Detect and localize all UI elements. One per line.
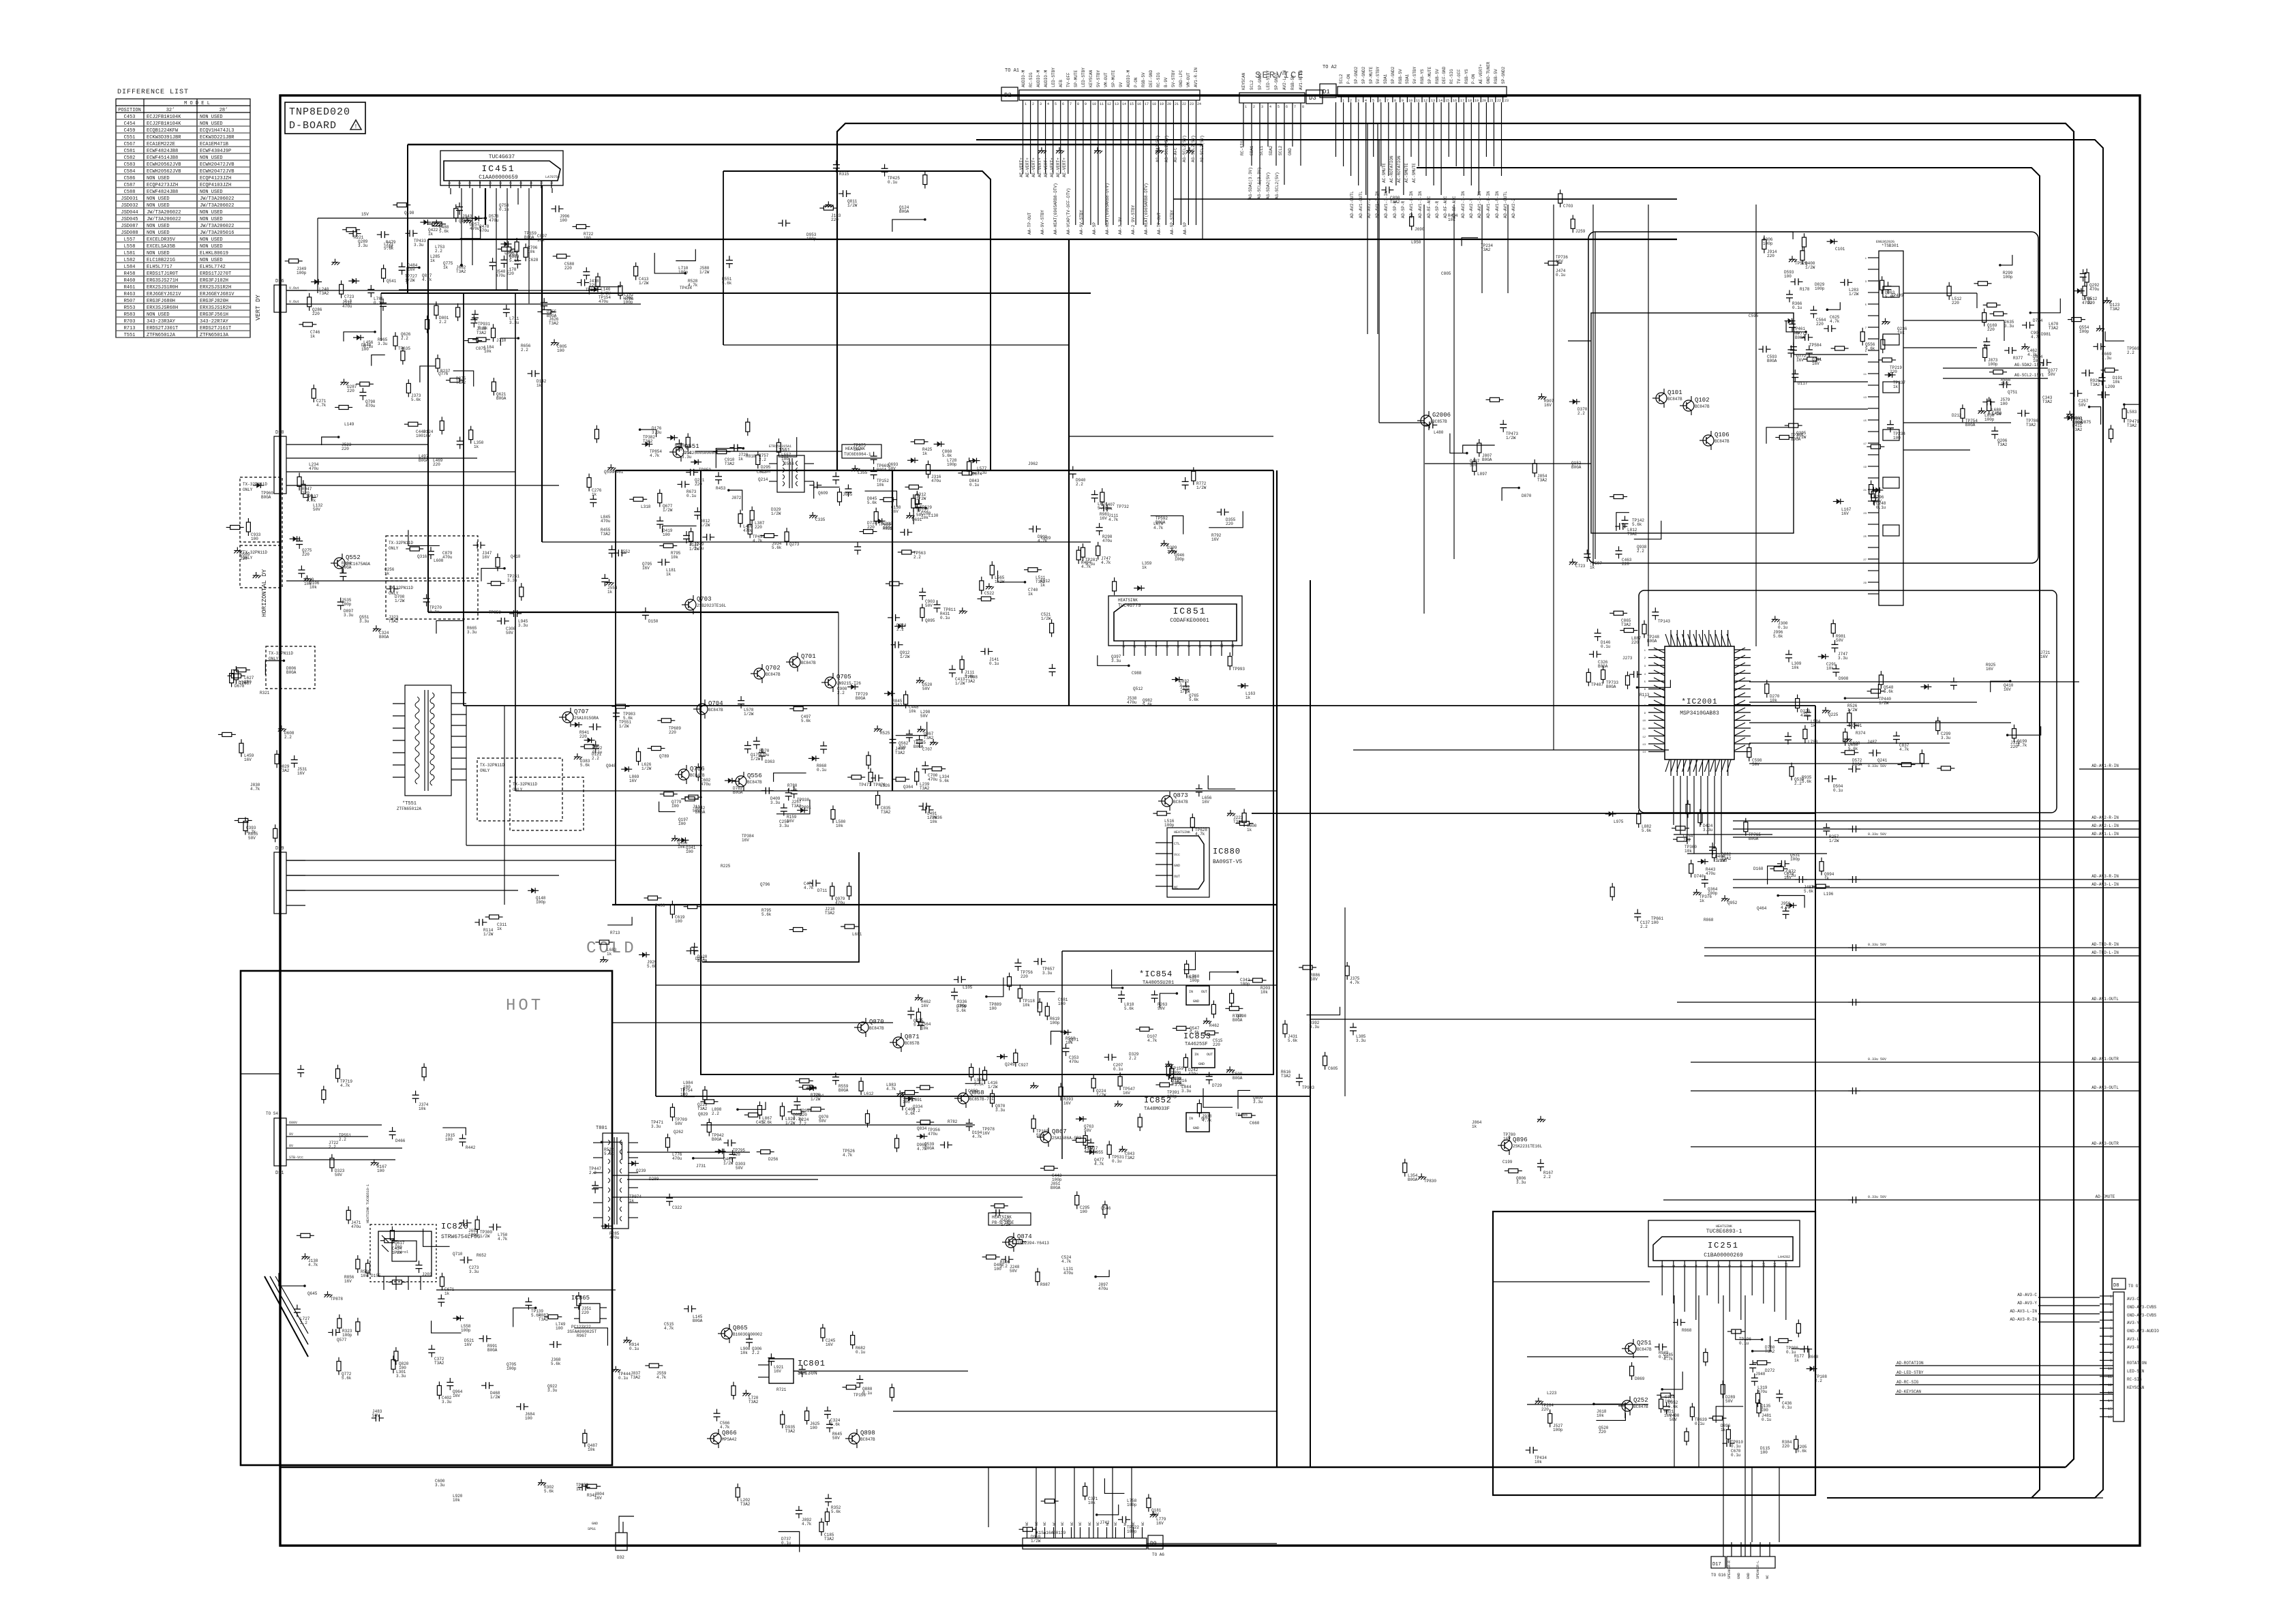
svg-text:11: 11 [550, 180, 554, 184]
svg-text:4.7k: 4.7k [664, 1326, 674, 1331]
svg-text:C805: C805 [1441, 271, 1451, 276]
svg-text:6: 6 [1177, 646, 1181, 648]
svg-text:470u: 470u [672, 1156, 682, 1161]
svg-text:BA09ST-V5: BA09ST-V5 [1213, 859, 1242, 865]
svg-text:1k: 1k [1893, 385, 1899, 389]
svg-text:470u: 470u [309, 466, 319, 471]
svg-text:220: 220 [312, 312, 320, 316]
svg-text:IN: IN [1194, 1053, 1198, 1057]
svg-text:AD-TRD-L-IN: AD-TRD-L-IN [2091, 950, 2119, 955]
svg-text:T3A2: T3A2 [539, 1317, 549, 1322]
svg-text:P-ON: P-ON [1471, 74, 1476, 84]
svg-text:4: 4 [1269, 105, 1271, 109]
svg-text:R713: R713 [124, 326, 136, 331]
svg-text:5.6k: 5.6k [1668, 1404, 1678, 1409]
svg-text:AG-SCL2(5V): AG-SCL2(5V) [1275, 172, 1280, 199]
svg-text:D466: D466 [395, 1139, 406, 1143]
svg-text:AD-AV2-Y: AD-AV2-Y [1469, 198, 1474, 218]
wires into D8 from left [1895, 1293, 2113, 1394]
svg-text:Q418: Q418 [511, 554, 521, 559]
cluster HOT upper interior [297, 1064, 476, 1178]
svg-text:2: 2 [1253, 105, 1255, 109]
cluster around IC865 [513, 1292, 703, 1381]
svg-text:10: 10 [1762, 1263, 1766, 1267]
svg-text:AV3-R: AV3-R [2127, 1345, 2139, 1350]
svg-text:10k: 10k [528, 250, 535, 254]
svg-text:Q364: Q364 [903, 785, 913, 790]
svg-text:ETR15F315A1: ETR15F315A1 [769, 445, 791, 449]
svg-text:AA-3.3V: AA-3.3V [1118, 217, 1123, 235]
svg-text:50V: 50V [675, 1122, 682, 1126]
svg-text:14: 14 [1438, 99, 1442, 103]
svg-text:AC-ROTATION: AC-ROTATION [1389, 155, 1394, 183]
svg-text:GND-AV3-AUDIO: GND-AV3-AUDIO [2127, 1329, 2159, 1334]
cluster IC852/853/854 support [1072, 952, 1263, 1167]
IC851 hybrid [1108, 596, 1242, 656]
vertical bus x680 [463, 293, 464, 706]
connector D2 pin wires down [1019, 106, 1196, 225]
svg-text:50V: 50V [1670, 1417, 1677, 1422]
svg-text:DEF-GND: DEF-GND [1149, 70, 1153, 87]
svg-text:D981: D981 [2041, 332, 2051, 337]
cluster IC801/Q866 area [714, 1324, 894, 1441]
svg-text:AA-HEAT(6965ARB8-DTV): AA-HEAT(6965ARB8-DTV) [1105, 183, 1110, 235]
svg-text:2.2: 2.2 [435, 249, 442, 254]
svg-text:AD-AV1-L-IN: AD-AV1-L-IN [2091, 832, 2119, 837]
cluster left of IC451 (D450/C453) [285, 228, 411, 352]
svg-text:1: 1 [448, 182, 452, 184]
svg-text:4.7k: 4.7k [1061, 1259, 1072, 1264]
svg-text:1k: 1k [629, 1199, 635, 1203]
transistor Q101 [1652, 389, 1682, 408]
svg-text:21: 21 [1863, 490, 1867, 492]
svg-text:TP878: TP878 [331, 1297, 343, 1302]
transistor Q252 [1618, 1396, 1648, 1415]
svg-text:16V: 16V [423, 434, 431, 438]
svg-text:4.7k: 4.7k [1108, 517, 1119, 522]
svg-text:3.3u: 3.3u [518, 623, 528, 628]
svg-text:TP635: TP635 [398, 346, 410, 351]
connector D19 [274, 846, 305, 914]
option dashed box 5 (TX-32PN11D ONLY) [266, 646, 315, 689]
svg-text:L209: L209 [2105, 385, 2115, 389]
svg-text:12: 12 [1785, 1263, 1789, 1267]
svg-text:LED-SEN: LED-SEN [2127, 1369, 2145, 1374]
svg-text:TP853: TP853 [489, 610, 501, 615]
svg-text:8: 8 [1077, 102, 1079, 106]
svg-text:AA-SP: AA-SP [1092, 222, 1097, 235]
svg-text:3: 3 [1261, 105, 1263, 109]
svg-text:4.7k: 4.7k [886, 1087, 896, 1092]
svg-text:AD-AV1-L-IN: AD-AV1-L-IN [1486, 191, 1491, 218]
svg-text:100p: 100p [2079, 329, 2089, 334]
svg-text:AE-VERT+: AE-VERT+ [1062, 157, 1067, 177]
svg-text:5V-STBY: 5V-STBY [1413, 66, 1417, 84]
svg-text:16V: 16V [982, 1131, 990, 1136]
svg-text:GND: GND [1193, 999, 1199, 1004]
box above IC801 [702, 852, 859, 962]
svg-text:10k: 10k [361, 1274, 368, 1278]
svg-text:16V: 16V [742, 838, 749, 843]
svg-text:AD-AV1-OUTL: AD-AV1-OUTL [1503, 191, 1508, 218]
svg-text:1k: 1k [1028, 592, 1033, 597]
svg-text:RC-SIG: RC-SIG [2127, 1377, 2142, 1382]
svg-text:L583: L583 [2127, 410, 2137, 415]
svg-text:1: 1 [1025, 102, 1027, 106]
svg-text:BC847B: BC847B [801, 661, 816, 665]
svg-text:2.2: 2.2 [1640, 924, 1648, 929]
svg-text:4.7k: 4.7k [1081, 565, 1091, 569]
svg-text:1k: 1k [537, 383, 542, 388]
svg-text:NC: NC [1141, 1522, 1145, 1526]
svg-text:0.1u: 0.1u [1731, 1444, 1741, 1449]
svg-text:BC847B: BC847B [860, 1437, 875, 1442]
sound section box around IC2001 [1639, 590, 2057, 813]
svg-text:0.1u: 0.1u [618, 1376, 629, 1381]
svg-text:19: 19 [1475, 99, 1479, 103]
svg-text:ERG3FJ680H: ERG3FJ680H [147, 299, 175, 304]
IC852 regulator [1144, 1096, 1209, 1132]
svg-text:8: 8 [1198, 646, 1203, 648]
svg-text:BC847B: BC847B [1715, 439, 1729, 444]
svg-text:T3A2: T3A2 [456, 380, 466, 385]
svg-text:5.6k: 5.6k [1124, 1006, 1134, 1011]
svg-text:HEATSINK: HEATSINK [1174, 830, 1190, 834]
svg-text:0.1u: 0.1u [969, 483, 980, 487]
svg-text:16V: 16V [891, 509, 898, 514]
transistor Q106 [1700, 431, 1729, 450]
svg-text:1/2W: 1/2W [1506, 436, 1516, 440]
svg-text:NC: NC [1035, 1522, 1039, 1526]
svg-text:2.2: 2.2 [1577, 411, 1585, 416]
svg-text:BC847B: BC847B [708, 708, 723, 712]
cluster C2025/C2034 filters [1841, 650, 2051, 770]
svg-text:T3A2: T3A2 [824, 1537, 834, 1542]
svg-text:3: 3 [468, 182, 472, 184]
svg-text:1k: 1k [1590, 565, 1595, 570]
svg-text:1/2W: 1/2W [483, 932, 494, 937]
svg-text:POSITION: POSITION [118, 108, 141, 113]
svg-text:1: 1 [1661, 1265, 1665, 1267]
IF block box B [1591, 313, 1794, 533]
difference list table [116, 89, 250, 338]
svg-text:16V: 16V [1211, 537, 1219, 542]
svg-text:GND-AV3-CVBS: GND-AV3-CVBS [2127, 1313, 2157, 1318]
svg-text:0.1u: 0.1u [499, 207, 509, 212]
svg-text:5: 5 [2110, 1327, 2112, 1331]
svg-text:220: 220 [669, 730, 676, 735]
svg-text:Q896: Q896 [1513, 1137, 1528, 1143]
svg-text:Q645: Q645 [307, 1291, 318, 1296]
cluster C550 bottom [736, 1484, 841, 1552]
regulator section box edges [1062, 951, 1273, 1159]
svg-text:470u: 470u [835, 901, 845, 905]
svg-text:Q790: Q790 [1237, 1014, 1247, 1019]
svg-text:4.7k: 4.7k [972, 1134, 982, 1139]
svg-text:J487: J487 [1867, 740, 1877, 745]
svg-text:220: 220 [1541, 1407, 1549, 1412]
svg-text:Q106: Q106 [1715, 432, 1729, 438]
cluster above D19 wires [474, 888, 707, 969]
transistor Q102 [1680, 396, 1710, 415]
svg-text:220: 220 [1816, 322, 1824, 327]
svg-text:T3A2: T3A2 [725, 462, 735, 466]
transistor Q873 [1158, 792, 1188, 811]
svg-text:C522: C522 [984, 591, 995, 596]
svg-text:220: 220 [831, 217, 839, 222]
svg-text:100: 100 [445, 1137, 453, 1142]
option dashed box 7 (TX-32PN11D ONLY) [510, 777, 584, 830]
svg-text:4.7k: 4.7k [650, 453, 660, 458]
svg-text:C459: C459 [124, 128, 136, 134]
svg-text:ERG3FJ820H: ERG3FJ820H [200, 299, 228, 304]
svg-text:B0GA: B0GA [1795, 335, 1805, 340]
svg-text:5: 5 [1278, 105, 1280, 109]
svg-text:Q163: Q163 [459, 219, 469, 224]
svg-text:T3A2: T3A2 [785, 1429, 796, 1434]
svg-text:!: ! [354, 123, 357, 130]
svg-text:1: 1 [1245, 105, 1247, 109]
svg-text:0.1u: 0.1u [1556, 273, 1566, 277]
svg-text:1k: 1k [607, 952, 612, 957]
svg-text:5.6k: 5.6k [939, 779, 950, 783]
svg-text:KEYSCAN: KEYSCAN [1241, 72, 1246, 90]
cluster JS2021 [1569, 494, 1661, 570]
title box TNP8ED020 D-BOARD [285, 102, 365, 134]
svg-text:0.1u: 0.1u [1762, 1417, 1772, 1422]
svg-text:NON USED: NON USED [147, 203, 170, 209]
svg-text:TV-OFF: TV-OFF [1066, 72, 1071, 87]
svg-text:AD-SP-R: AD-SP-R [1435, 200, 1440, 218]
svg-text:T3A2: T3A2 [643, 439, 653, 444]
svg-text:220: 220 [433, 462, 440, 467]
svg-text:D729: D729 [1212, 1083, 1222, 1088]
svg-text:1/2W: 1/2W [480, 1234, 490, 1239]
svg-text:ECKW3D391JBR: ECKW3D391JBR [147, 135, 181, 140]
svg-text:C581: C581 [124, 149, 136, 154]
svg-text:J544: J544 [784, 462, 794, 466]
svg-text:2.2: 2.2 [896, 627, 904, 632]
svg-text:LED-STBY: LED-STBY [1266, 70, 1271, 90]
svg-text:5.6k: 5.6k [867, 500, 877, 505]
svg-text:8: 8 [519, 182, 524, 184]
svg-text:2.2: 2.2 [1000, 1264, 1008, 1269]
svg-text:SCL2: SCL2 [1278, 145, 1283, 155]
svg-text:0.33u 50V: 0.33u 50V [1868, 1195, 1886, 1199]
svg-text:2: 2 [458, 182, 462, 184]
svg-text:1k: 1k [443, 265, 449, 270]
svg-text:50V: 50V [1836, 638, 1843, 643]
svg-text:LED-STBY: LED-STBY [1081, 67, 1086, 87]
svg-text:2.2: 2.2 [284, 735, 292, 740]
svg-text:28’: 28’ [220, 108, 228, 113]
svg-text:16V: 16V [1123, 1091, 1130, 1096]
svg-text:B0GA: B0GA [261, 495, 271, 500]
svg-text:IC880: IC880 [1213, 847, 1241, 856]
svg-text:VM-OUT: VM-OUT [1186, 72, 1191, 87]
svg-text:C588: C588 [124, 190, 136, 195]
svg-text:B0GA: B0GA [419, 458, 429, 463]
svg-text:Q590: Q590 [604, 470, 614, 475]
svg-text:0.1u: 0.1u [1786, 1350, 1796, 1355]
svg-text:L581: L581 [124, 251, 136, 256]
svg-text:T3A2: T3A2 [965, 679, 976, 684]
svg-text:AV1-R-IN: AV1-R-IN [1299, 70, 1303, 90]
connector D16 [274, 279, 307, 312]
svg-text:ONLY: ONLY [243, 487, 253, 492]
svg-text:100p: 100p [468, 1233, 479, 1237]
svg-text:470u: 470u [1102, 539, 1113, 543]
svg-text:R782: R782 [948, 1119, 958, 1124]
svg-text:23: 23 [1505, 99, 1509, 103]
svg-text:Q866: Q866 [722, 1430, 737, 1437]
svg-text:D17: D17 [1712, 1562, 1721, 1567]
svg-text:5.6k: 5.6k [1190, 1030, 1200, 1035]
svg-text:RC-SIG: RC-SIG [1449, 69, 1454, 84]
svg-text:220: 220 [1622, 562, 1629, 567]
svg-text:100p: 100p [1988, 362, 1998, 367]
IC451 pin wires [318, 185, 552, 303]
svg-text:T3A2: T3A2 [319, 291, 329, 296]
IC251 audio amplifier [1648, 1220, 1800, 1320]
svg-text:T3A2: T3A2 [477, 331, 487, 335]
svg-text:1/2W: 1/2W [1991, 412, 2002, 417]
svg-text:Q252: Q252 [1633, 1397, 1648, 1404]
IC853 regulator [1183, 1032, 1215, 1068]
svg-text:TO G16: TO G16 [1711, 1573, 1726, 1578]
vertical bus x1922 [1310, 580, 1311, 1467]
svg-text:100p: 100p [1171, 1070, 1181, 1075]
svg-text:0.1u: 0.1u [781, 1541, 791, 1546]
svg-text:50V: 50V [2048, 372, 2055, 377]
svg-text:5.6k: 5.6k [1288, 1038, 1298, 1043]
svg-text:50V: 50V [1084, 1128, 1091, 1133]
svg-text:AD-SP-R: AD-SP-R [1401, 200, 1406, 218]
svg-text:B0GA: B0GA [697, 959, 708, 963]
svg-text:Q702: Q702 [766, 665, 781, 672]
svg-text:AD-EMUTE: AD-EMUTE [2096, 1194, 2115, 1199]
svg-text:MPSA42: MPSA42 [722, 1437, 737, 1442]
svg-text:AA-SP-STBY: AA-SP-STBY [1170, 210, 1175, 235]
svg-text:TUC4G637: TUC4G637 [489, 154, 515, 160]
svg-text:R315: R315 [839, 172, 849, 177]
svg-text:Q541: Q541 [387, 279, 397, 284]
svg-text:NC: NC [1053, 1522, 1057, 1526]
svg-text:HEATSINK: HEATSINK [1118, 598, 1138, 603]
svg-text:AA-TP-OUT: AA-TP-OUT [1157, 212, 1162, 235]
svg-text:100: 100 [810, 1426, 817, 1430]
svg-text:J259: J259 [1575, 229, 1586, 234]
vertical bus x2663 [1815, 706, 1816, 1222]
svg-text:LED-STBY: LED-STBY [1051, 67, 1056, 87]
transistor Q251 [1622, 1339, 1652, 1358]
svg-text:C660: C660 [1250, 1121, 1260, 1126]
svg-text:10: 10 [1092, 102, 1096, 106]
svg-text:TUC8E6893-1: TUC8E6893-1 [1706, 1229, 1742, 1235]
svg-text:100p: 100p [1050, 1021, 1060, 1025]
svg-text:100p: 100p [342, 1333, 352, 1338]
svg-text:100: 100 [1761, 1408, 1768, 1413]
cluster around Q551 snubber [587, 418, 771, 552]
svg-text:13: 13 [1642, 744, 1646, 747]
svg-text:1k: 1k [310, 334, 316, 339]
svg-text:R113: R113 [1640, 693, 1650, 697]
svg-text:ERG3FJ102H: ERG3FJ102H [200, 278, 228, 284]
svg-text:ECQB1224KFW: ECQB1224KFW [147, 128, 179, 134]
svg-text:AFB: AFB [1059, 80, 1063, 87]
svg-text:R955: R955 [1093, 1150, 1104, 1155]
svg-text:4.7k: 4.7k [1350, 980, 1360, 985]
svg-text:1: 1 [2110, 1295, 2112, 1299]
svg-text:15: 15 [2108, 1407, 2112, 1411]
svg-text:13: 13 [1115, 102, 1119, 106]
transistor Q896 [1498, 1136, 1543, 1155]
svg-text:NC: NC [1174, 886, 1178, 890]
svg-text:C586: C586 [124, 176, 136, 181]
svg-text:1/2W: 1/2W [900, 655, 910, 659]
svg-text:NON USED: NON USED [147, 312, 170, 318]
svg-text:L950: L950 [1411, 240, 1421, 245]
svg-text:TP850: TP850 [699, 468, 711, 472]
svg-text:3.3u: 3.3u [435, 1483, 445, 1488]
svg-text:100p: 100p [1790, 857, 1800, 862]
svg-text:AC-SMUTE: AC-SMUTE [1404, 163, 1409, 183]
svg-text:ELHKL80619: ELHKL80619 [200, 251, 228, 256]
svg-text:Q796: Q796 [760, 882, 770, 887]
svg-text:ELC18B221G: ELC18B221G [147, 258, 175, 263]
svg-text:ECWF4304J9P: ECWF4304J9P [200, 149, 231, 154]
option dashed box 6 (TX-32PN11D ONLY) [477, 758, 562, 821]
svg-text:1/2W: 1/2W [1847, 708, 1858, 712]
svg-text:SCL2: SCL2 [1339, 74, 1344, 84]
svg-text:PC123Y22: PC123Y22 [571, 1325, 591, 1329]
svg-text:2: 2 [1032, 102, 1034, 106]
svg-text:1/2W: 1/2W [700, 523, 710, 528]
bus wire y1327 [612, 904, 1277, 905]
IC2001 QFP sound processor [1642, 630, 1751, 776]
svg-text:AD-RF-AGC: AD-RF-AGC [1443, 196, 1448, 218]
svg-text:TP732: TP732 [1117, 505, 1129, 509]
svg-text:JSD087: JSD087 [121, 224, 138, 229]
svg-text:1: 1 [1122, 646, 1126, 648]
svg-text:TP529: TP529 [920, 505, 932, 510]
svg-text:D870: D870 [1522, 494, 1532, 498]
svg-text:220: 220 [579, 734, 587, 739]
svg-text:AG-SCL2(5V): AG-SCL2(5V) [1191, 135, 1196, 162]
svg-text:L582: L582 [124, 258, 136, 263]
svg-text:5.6k: 5.6k [761, 912, 772, 917]
svg-text:L865: L865 [504, 251, 515, 256]
cluster TP bottom [435, 1479, 605, 1503]
svg-text:2.2: 2.2 [913, 555, 921, 560]
svg-text:4: 4 [2110, 1319, 2112, 1323]
svg-text:C457: C457 [756, 1120, 766, 1125]
svg-text:22: 22 [1497, 99, 1501, 103]
svg-text:5: 5 [1055, 102, 1057, 106]
cluster around Q552 [337, 561, 405, 640]
svg-text:6: 6 [1062, 102, 1064, 106]
svg-text:Q102: Q102 [1695, 397, 1710, 404]
svg-text:470u: 470u [1706, 871, 1716, 876]
svg-text:R868: R868 [1682, 1328, 1692, 1333]
svg-text:C723: C723 [1575, 564, 1586, 569]
svg-text:470u: 470u [470, 226, 480, 231]
heatsink label for Q874 [988, 1213, 1031, 1225]
svg-text:10: 10 [1220, 644, 1224, 648]
svg-text:AG-SDA1(3.3V): AG-SDA1(3.3V) [1248, 167, 1253, 199]
svg-text:BC847B: BC847B [766, 672, 781, 677]
svg-text:IN: IN [1189, 990, 1193, 994]
